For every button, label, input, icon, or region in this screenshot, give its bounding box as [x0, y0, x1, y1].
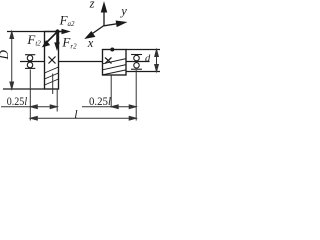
gear G1 column outline [45, 32, 59, 90]
svg-text:d: d [145, 53, 151, 64]
svg-text:0.25l: 0.25l [89, 96, 111, 108]
svg-text:z: z [89, 0, 95, 10]
coordinate axes origin [86, 4, 125, 39]
node gear mesh point dot [55, 29, 59, 33]
dimension 0.25l right line [82, 105, 136, 109]
extension line right bearing center [135, 70, 137, 121]
svg-text:x: x [87, 36, 94, 50]
wire top line gear rim [7, 31, 66, 33]
bearing B2 housing block [103, 50, 127, 76]
dimension D line [10, 32, 14, 90]
axis y [104, 24, 119, 26]
wire D bottom reference line [3, 88, 45, 90]
wire d top reference line [126, 49, 160, 51]
force Fa2 arrow (axial, along +y) [58, 29, 71, 35]
wire shaft centerline right segment [126, 61, 150, 63]
fixed-point cross X1 in gear column [49, 57, 56, 64]
dimension d line [155, 50, 159, 72]
svg-text:D: D [0, 50, 11, 61]
extension line left bearing center [29, 70, 31, 121]
hatching gear column [45, 67, 59, 85]
extension line right block (x=111) [110, 76, 112, 108]
force Fr2 arrow (radial, down) [54, 32, 60, 52]
extension line gear overhang (x=57) [56, 89, 58, 112]
dimension l line [30, 116, 136, 120]
wire shaft centerline mid segment [59, 61, 103, 63]
fixed-point cross X2 in right block [105, 58, 112, 64]
node right block top dot [110, 48, 114, 52]
dimension 0.25l left line [1, 105, 57, 109]
bearing B3 symbol right (bars and balls) [131, 55, 142, 70]
axis z [103, 10, 105, 26]
svg-text:0.25l: 0.25l [7, 96, 27, 108]
wire d bottom reference line [126, 71, 160, 73]
extension line gear mid-plane stub [52, 74, 54, 95]
bearing B1 symbol left (bars and balls) [25, 55, 35, 69]
force Ft2 arrow (tangential, down-left) [42, 32, 58, 48]
hatching right block [103, 59, 127, 75]
wire shaft centerline left segment [20, 61, 45, 63]
axis x [91, 26, 104, 35]
svg-text:y: y [119, 4, 127, 18]
